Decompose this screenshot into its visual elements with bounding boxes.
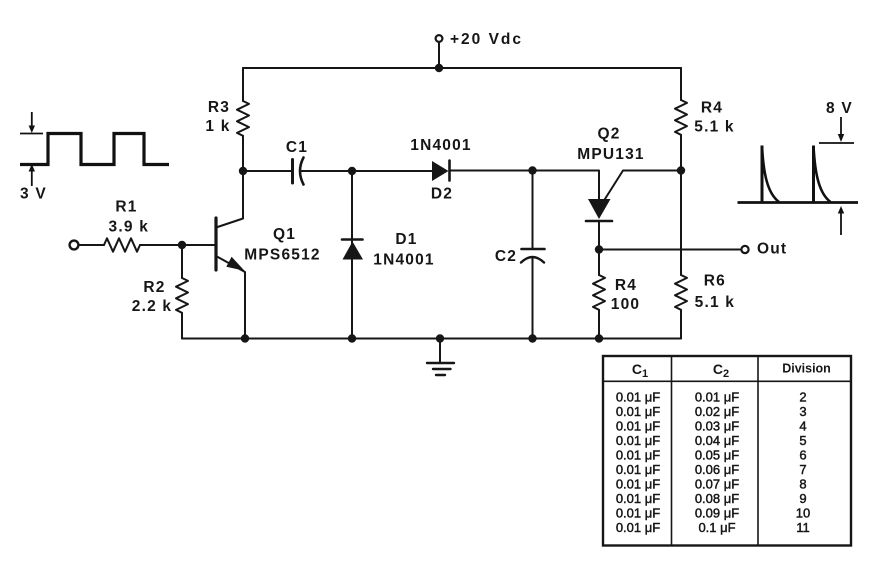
svg-text:0.1 μF: 0.1 μF <box>698 520 735 535</box>
svg-text:0.03 μF: 0.03 μF <box>695 419 739 434</box>
svg-text:0.01 μF: 0.01 μF <box>695 390 739 405</box>
svg-text:R4: R4 <box>701 100 723 117</box>
svg-text:100: 100 <box>611 296 640 313</box>
svg-text:0.09 μF: 0.09 μF <box>695 506 739 521</box>
svg-text:0.01 μF: 0.01 μF <box>616 477 660 492</box>
svg-text:D1: D1 <box>395 231 417 248</box>
svg-text:7: 7 <box>799 462 806 477</box>
svg-text:R3: R3 <box>208 99 230 116</box>
svg-text:Out: Out <box>757 241 787 258</box>
svg-text:C2: C2 <box>495 248 517 265</box>
svg-text:4: 4 <box>799 419 806 434</box>
svg-text:11: 11 <box>796 520 810 535</box>
svg-text:0.01 μF: 0.01 μF <box>616 404 660 419</box>
svg-text:0.04 μF: 0.04 μF <box>695 433 739 448</box>
svg-text:Q2: Q2 <box>597 126 620 143</box>
svg-text:R6: R6 <box>704 272 726 289</box>
svg-text:2.2 k: 2.2 k <box>132 298 172 315</box>
svg-text:1N4001: 1N4001 <box>410 137 472 154</box>
svg-text:2: 2 <box>799 390 806 405</box>
svg-text:0.01 μF: 0.01 μF <box>616 520 660 535</box>
svg-text:3: 3 <box>799 404 806 419</box>
svg-text:3.9 k: 3.9 k <box>109 219 149 236</box>
svg-text:10: 10 <box>796 506 810 521</box>
svg-text:0.01 μF: 0.01 μF <box>616 419 660 434</box>
svg-text:Q1: Q1 <box>273 226 296 243</box>
svg-text:9: 9 <box>799 491 806 506</box>
svg-text:1 k: 1 k <box>205 118 230 135</box>
svg-text:0.08 μF: 0.08 μF <box>695 491 739 506</box>
svg-text:1N4001: 1N4001 <box>373 252 435 269</box>
svg-text:3 V: 3 V <box>20 186 47 203</box>
svg-text:D2: D2 <box>431 186 453 203</box>
svg-text:5.1 k: 5.1 k <box>695 294 735 311</box>
svg-text:8 V: 8 V <box>826 100 853 117</box>
svg-text:0.01 μF: 0.01 μF <box>616 506 660 521</box>
svg-text:6: 6 <box>799 448 806 463</box>
svg-text:R2: R2 <box>143 279 165 296</box>
svg-text:8: 8 <box>799 477 806 492</box>
svg-text:0.01 μF: 0.01 μF <box>616 390 660 405</box>
svg-text:5.1 k: 5.1 k <box>694 119 734 136</box>
svg-text:0.01 μF: 0.01 μF <box>616 462 660 477</box>
svg-text:C1: C1 <box>286 139 308 156</box>
svg-text:+20 Vdc: +20 Vdc <box>450 31 523 48</box>
svg-text:R1: R1 <box>115 199 137 216</box>
svg-text:0.05 μF: 0.05 μF <box>695 448 739 463</box>
svg-text:0.01 μF: 0.01 μF <box>616 491 660 506</box>
svg-text:0.01 μF: 0.01 μF <box>616 433 660 448</box>
svg-text:0.07 μF: 0.07 μF <box>695 477 739 492</box>
svg-text:5: 5 <box>799 433 806 448</box>
svg-text:0.01 μF: 0.01 μF <box>616 448 660 463</box>
svg-text:MPS6512: MPS6512 <box>244 247 320 264</box>
svg-text:Division: Division <box>782 362 831 376</box>
svg-text:0.02 μF: 0.02 μF <box>695 404 739 419</box>
svg-text:MPU131: MPU131 <box>577 146 645 163</box>
svg-text:R4: R4 <box>615 277 637 294</box>
svg-text:0.06 μF: 0.06 μF <box>695 462 739 477</box>
